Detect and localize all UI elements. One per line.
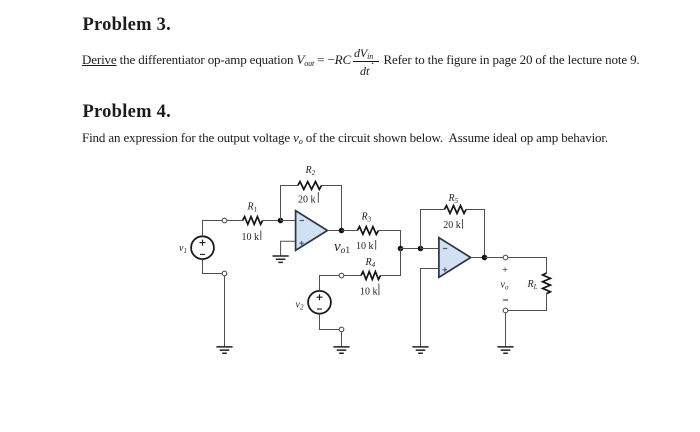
wire node A to op-amp1 minus input: [281, 220, 296, 222]
wire v2 top to terminal: [320, 276, 340, 291]
wire node B to node C: [401, 248, 421, 250]
node D junction: [482, 255, 488, 261]
wire R2 to output node: [322, 186, 342, 229]
wire vo1 to R3: [342, 230, 358, 232]
wire op-amp2 plus input: [421, 269, 439, 347]
wire terminal to RL: [508, 258, 547, 274]
paragraph problem 4: [82, 130, 608, 146]
tick mark R2: [317, 192, 319, 203]
resistor RL: [543, 273, 551, 294]
node C junction: [418, 246, 424, 252]
svg-text:vo: vo: [501, 280, 509, 292]
ground op-amp2: [412, 347, 428, 353]
resistor R3: [357, 227, 378, 235]
wire node A up to R2: [281, 186, 298, 221]
node B junction: [398, 246, 404, 252]
resistor R5: [444, 206, 466, 214]
voltage source v2: [308, 291, 331, 314]
terminal v1 top: [222, 218, 227, 223]
resistor R2: [298, 182, 322, 190]
tick mark R4: [378, 284, 380, 296]
paragraph problem 3: [82, 52, 640, 68]
wire v1 terminal to ground: [224, 276, 226, 347]
ground v2: [333, 347, 349, 353]
wire node C to op-amp2 minus input: [421, 248, 439, 250]
wire op-amp1 output: [327, 230, 341, 232]
svg-text:10 k: 10 k: [360, 286, 378, 297]
resistor R4: [361, 272, 381, 280]
wire R1 to node A: [263, 220, 281, 222]
svg-text:10 k: 10 k: [242, 232, 260, 243]
wire v2 terminal to ground: [341, 332, 343, 347]
heading Problem 4: [83, 102, 171, 123]
svg-text:20 k: 20 k: [443, 220, 461, 231]
tick mark R3: [375, 240, 377, 250]
node vo1 junction: [339, 228, 345, 234]
terminal v1 bottom: [222, 271, 227, 276]
wire op-amp2 output: [471, 257, 485, 259]
terminal v2 bottom: [339, 327, 344, 332]
svg-text:R5: R5: [448, 193, 459, 205]
svg-text:+: +: [502, 265, 508, 276]
svg-text:v2: v2: [296, 299, 304, 311]
ground op-amp1: [273, 256, 289, 262]
svg-text:R2: R2: [305, 165, 316, 177]
fraction dVin/dt: [354, 46, 373, 61]
svg-text:R3: R3: [361, 211, 372, 223]
node A junction: [278, 218, 284, 224]
svg-text:vo1: vo1: [334, 239, 350, 256]
svg-text:R1: R1: [247, 202, 258, 214]
wire node D to output terminal: [485, 257, 504, 259]
wire terminal to R4: [344, 275, 361, 277]
wire v1 top to terminal: [203, 221, 223, 237]
svg-text:10 k: 10 k: [356, 241, 374, 252]
wire RL to bottom terminal: [508, 294, 547, 311]
op-amp U1: [296, 211, 328, 251]
wire R5 to output node D: [465, 210, 484, 256]
resistor R1: [243, 217, 263, 225]
wire op-amp1 plus input: [281, 241, 296, 256]
heading Problem 3: [83, 15, 171, 36]
svg-text:RL: RL: [527, 279, 538, 291]
op-amp U2: [439, 238, 471, 278]
wire R3 to node B: [378, 231, 400, 249]
terminal vo plus: [503, 255, 508, 260]
wire vo minus terminal to ground: [505, 313, 507, 347]
voltage source v1: [191, 236, 214, 259]
wire node C up to R5: [421, 210, 445, 249]
wire R4 to node B: [380, 249, 401, 276]
tick mark R5: [462, 219, 464, 229]
terminal v2 top: [339, 273, 344, 278]
wire v2 bottom: [320, 314, 340, 330]
svg-text:20 k: 20 k: [298, 194, 316, 205]
tick mark R1: [260, 230, 262, 240]
ground output: [497, 347, 513, 353]
svg-text:v1: v1: [179, 243, 187, 255]
wire terminal to R1: [227, 220, 243, 222]
terminal vo minus: [503, 308, 508, 313]
wire v1 bottom: [203, 259, 223, 273]
ground v1: [216, 347, 232, 353]
svg-text:R4: R4: [365, 257, 376, 269]
label minus (output): [503, 299, 508, 301]
